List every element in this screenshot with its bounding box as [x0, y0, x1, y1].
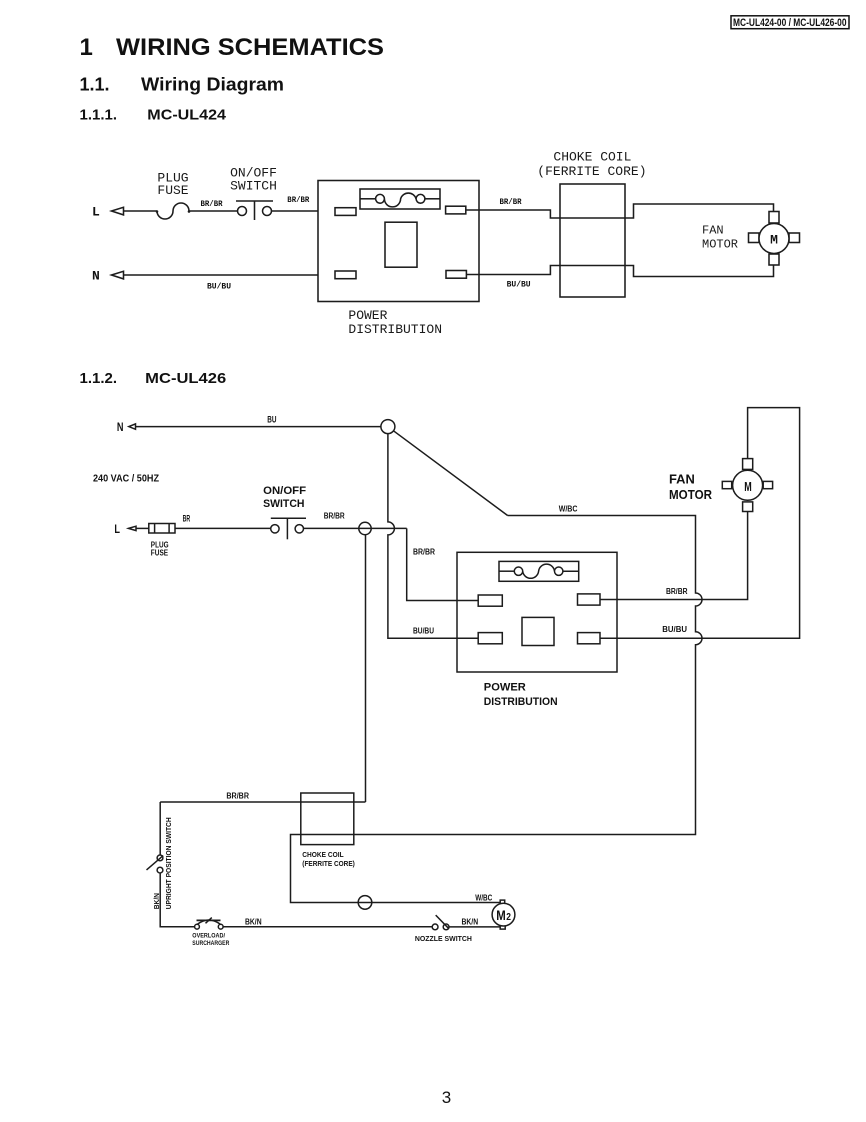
svg-text:Wiring Diagram: Wiring Diagram: [141, 74, 284, 94]
junction node A (N junction): [381, 420, 395, 434]
node L terminal arrow: [112, 207, 124, 215]
terminal lug bottom-right (426): [578, 633, 601, 644]
wire box to choke top: [466, 204, 774, 218]
svg-text:CHOKE COIL: CHOKE COIL: [302, 852, 344, 859]
svg-text:1: 1: [80, 34, 93, 61]
svg-text:NOZZLE SWITCH: NOZZLE SWITCH: [415, 936, 472, 943]
wire N to junction: [136, 426, 382, 428]
node N terminal arrow (426): [129, 424, 136, 429]
choke coil L2: [301, 793, 354, 845]
svg-text:BR/BR: BR/BR: [500, 197, 523, 207]
svg-text:BR/BR: BR/BR: [201, 199, 224, 209]
svg-text:L: L: [114, 522, 120, 536]
wire fuse to switch: [189, 210, 238, 212]
svg-text:BU/BU: BU/BU: [413, 627, 434, 636]
wire BR/BR down to box (426): [407, 528, 479, 600]
connector block center: [385, 222, 417, 267]
svg-text:BU/BU: BU/BU: [507, 280, 531, 290]
svg-text:M: M: [770, 232, 778, 247]
wire down to upright position switch: [159, 802, 161, 855]
wire overload to nozzle switch: [223, 926, 432, 928]
node L terminal arrow (426): [129, 526, 137, 530]
svg-text:SWITCH: SWITCH: [263, 498, 304, 510]
wire BR/BR choke run: [160, 801, 365, 803]
svg-text:BU/BU: BU/BU: [207, 282, 231, 292]
terminal lug bottom-left: [335, 271, 356, 279]
power distribution box U2: [457, 552, 617, 672]
svg-text:MC-UL426: MC-UL426: [145, 370, 226, 387]
wire vertical from node B down to choke: [365, 535, 367, 802]
fan motor M3 (426): [722, 459, 772, 512]
svg-text:UPRIGHT POSITION SWITCH: UPRIGHT POSITION SWITCH: [166, 817, 173, 909]
agitator motor M2: [492, 900, 515, 929]
svg-text:FUSE: FUSE: [157, 183, 188, 198]
header model box: [731, 16, 849, 29]
terminal lug top-right: [446, 206, 466, 214]
svg-text:240 VAC / 50HZ: 240 VAC / 50HZ: [93, 474, 159, 485]
svg-text:MOTOR: MOTOR: [702, 238, 738, 252]
nozzle switch S4: [432, 915, 449, 930]
thermal fuse F2 in power distribution: [360, 189, 440, 209]
svg-text:BR: BR: [183, 514, 191, 524]
wire box to fan motor bottom: [600, 512, 748, 600]
svg-text:BU: BU: [267, 415, 276, 425]
svg-text:(FERRITE CORE): (FERRITE CORE): [302, 861, 355, 868]
svg-text:BR/BR: BR/BR: [287, 195, 310, 205]
connector block center (426): [522, 617, 554, 645]
svg-text:MC-UL424-00 / MC-UL426-00: MC-UL424-00 / MC-UL426-00: [733, 17, 847, 29]
svg-text:N: N: [117, 420, 124, 434]
svg-text:N: N: [92, 269, 100, 284]
svg-text:BK/N: BK/N: [462, 917, 479, 926]
svg-text:DISTRIBUTION: DISTRIBUTION: [484, 696, 558, 708]
svg-text:FAN: FAN: [702, 224, 724, 238]
terminal lug top-left (426): [478, 595, 502, 606]
svg-text:BR/BR: BR/BR: [666, 587, 688, 596]
svg-text:POWER: POWER: [484, 682, 526, 694]
wire fuse to switch (426): [175, 527, 271, 529]
wire box to fan motor top: [600, 408, 800, 639]
svg-text:MOTOR: MOTOR: [669, 487, 713, 502]
wire upright switch down and right: [160, 873, 194, 927]
wire switch to power distribution: [272, 210, 336, 212]
svg-text:OVERLOAD/: OVERLOAD/: [192, 933, 225, 940]
wire switch to corner (through node B): [304, 527, 407, 529]
junction node B (L junction): [359, 522, 371, 534]
fan motor M1: [749, 212, 800, 266]
plug fuse F3 (cartridge): [149, 524, 175, 534]
svg-text:SWITCH: SWITCH: [230, 178, 277, 193]
wire L arrow to fuse: [124, 210, 158, 212]
svg-text:1.1.: 1.1.: [80, 74, 110, 94]
svg-text:1.1.1.: 1.1.1.: [80, 106, 118, 123]
power distribution box U1: [318, 181, 479, 302]
svg-text:1.1.2.: 1.1.2.: [80, 370, 118, 387]
wire vertical from node A with hop over L wire: [388, 434, 478, 639]
wire N to power distribution: [124, 274, 336, 276]
connector node on W/BC wire: [358, 896, 372, 910]
on/off switch S1: [236, 201, 273, 220]
on/off switch S2 (426): [271, 518, 306, 539]
svg-text:ON/OFF: ON/OFF: [263, 485, 306, 497]
svg-text:M: M: [496, 907, 506, 923]
svg-text:BK/N: BK/N: [245, 918, 262, 927]
choke coil L1: [560, 184, 625, 297]
svg-text:M: M: [744, 479, 752, 494]
wire nozzle switch to agitator motor: [449, 926, 500, 928]
wire box to choke bottom: [466, 265, 773, 277]
svg-text:MC-UL424: MC-UL424: [147, 106, 226, 123]
svg-text:FUSE: FUSE: [151, 549, 169, 558]
svg-text:BR/BR: BR/BR: [324, 511, 345, 520]
thermal fuse F4 in power distribution (426): [499, 561, 579, 581]
terminal lug bottom-right: [446, 271, 466, 279]
svg-text:CHOKE COIL: CHOKE COIL: [553, 150, 631, 165]
plug fuse F1: [156, 203, 191, 219]
svg-text:W/BC: W/BC: [559, 505, 578, 514]
svg-text:BU/BU: BU/BU: [662, 625, 687, 634]
svg-text:L: L: [92, 205, 100, 220]
node N terminal arrow: [112, 271, 124, 279]
svg-text:2: 2: [506, 912, 511, 923]
svg-text:BR/BR: BR/BR: [226, 792, 249, 801]
svg-text:W/BC: W/BC: [475, 894, 492, 903]
terminal lug top-left: [335, 208, 356, 216]
svg-text:(FERRITE CORE): (FERRITE CORE): [537, 164, 646, 179]
svg-text:BR/BR: BR/BR: [413, 548, 435, 557]
wire W/BC horizontal and vertical with hops: [291, 516, 703, 903]
svg-text:3: 3: [442, 1088, 451, 1107]
svg-text:SURCHARGER: SURCHARGER: [192, 940, 229, 947]
wire L to fuse: [136, 527, 149, 529]
terminal lug top-right (426): [578, 594, 601, 605]
overload/surcharger protector: [195, 918, 224, 930]
terminal lug bottom-left (426): [478, 633, 502, 644]
svg-text:FAN: FAN: [669, 472, 695, 487]
svg-text:WIRING SCHEMATICS: WIRING SCHEMATICS: [116, 34, 384, 61]
wire W/BC diagonal from junction A: [394, 431, 508, 516]
upright position switch S3: [147, 855, 164, 873]
svg-text:DISTRIBUTION: DISTRIBUTION: [348, 322, 442, 337]
